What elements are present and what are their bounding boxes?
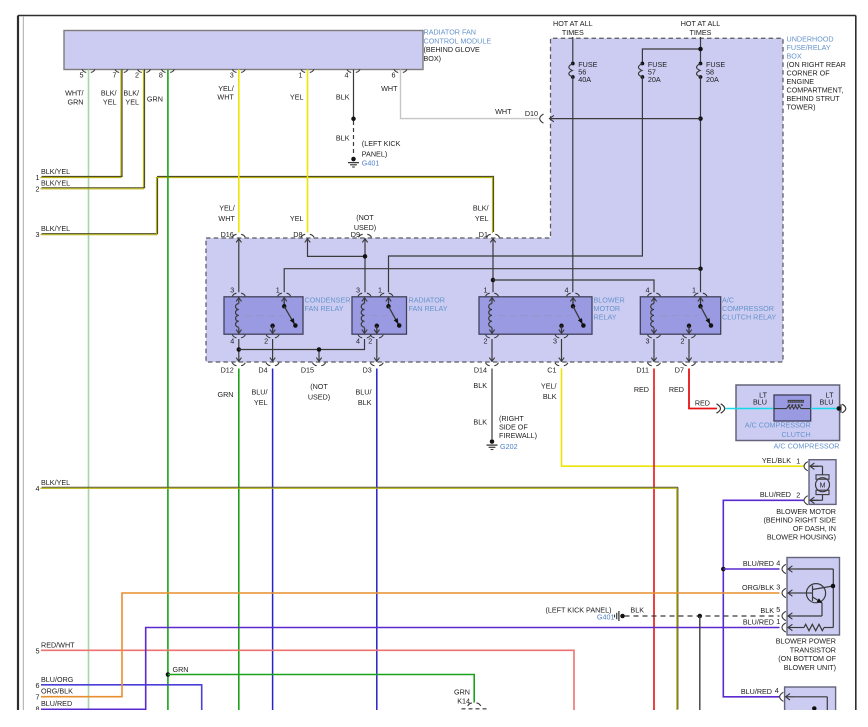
svg-text:3: 3 <box>776 582 780 591</box>
svg-text:4: 4 <box>36 484 40 493</box>
svg-text:G401: G401 <box>597 613 615 622</box>
svg-text:1: 1 <box>692 286 696 295</box>
wire D1 branch to A/C relay pin 4 <box>493 280 654 292</box>
svg-text:1: 1 <box>796 456 800 465</box>
svg-text:CONTROL MODULE: CONTROL MODULE <box>424 36 492 45</box>
frame pin 7 label <box>36 687 74 702</box>
connector D7 <box>675 355 696 375</box>
svg-text:4: 4 <box>230 337 234 346</box>
svg-text:1: 1 <box>776 617 780 626</box>
connector C1 <box>547 355 568 375</box>
svg-text:D11: D11 <box>636 365 649 374</box>
junction D8/D9 <box>363 254 368 259</box>
svg-text:WHT: WHT <box>381 84 398 93</box>
svg-text:TOWER): TOWER) <box>787 103 816 112</box>
svg-text:BLK/YEL: BLK/YEL <box>41 478 70 487</box>
underhood fuse/relay box (dashed) <box>206 38 783 362</box>
wire YEL/BLK from C1 to blower motor <box>541 369 804 467</box>
node HOT AT ALL TIMES (fuse 58) <box>681 19 721 37</box>
svg-text:(BEHIND GLOVE: (BEHIND GLOVE <box>424 45 481 54</box>
junction GRN branch <box>166 665 189 677</box>
svg-text:(LEFT KICK: (LEFT KICK <box>362 139 401 148</box>
svg-text:BLK: BLK <box>336 134 350 143</box>
svg-text:GRN: GRN <box>173 665 189 674</box>
svg-text:D8: D8 <box>293 230 302 239</box>
wire WHT/GRN from module pin 5 <box>65 70 88 711</box>
wire BLK/YEL from module pin 2 to frame pin 2 <box>40 69 145 189</box>
wire condenser pin2 to D4 <box>272 339 274 355</box>
connector D12 <box>221 355 246 375</box>
wire YEL/WHT from module pin 3 to connector D16 <box>217 70 238 233</box>
svg-text:BLU: BLU <box>820 397 834 406</box>
label NOT USED at D15 <box>308 382 330 401</box>
wire RED from D11 <box>634 369 654 711</box>
label left kick panel at G401 <box>545 605 614 621</box>
ground G401 (left kick panel) <box>348 139 401 168</box>
svg-text:RADIATOR FAN: RADIATOR FAN <box>424 28 476 37</box>
connector transistor pin 3 <box>742 582 796 597</box>
svg-text:5: 5 <box>36 646 40 655</box>
svg-text:C1: C1 <box>547 365 556 374</box>
svg-text:3: 3 <box>36 230 40 239</box>
svg-text:4: 4 <box>646 286 650 295</box>
module pin 2 <box>135 69 151 79</box>
svg-text:BLU/: BLU/ <box>252 388 268 397</box>
svg-text:YEL/: YEL/ <box>541 382 557 391</box>
connector D1 <box>479 230 500 246</box>
svg-text:1: 1 <box>484 286 488 295</box>
svg-text:RED: RED <box>669 385 684 394</box>
svg-text:YEL: YEL <box>290 93 304 102</box>
svg-text:D12: D12 <box>221 365 234 374</box>
wire D9 down <box>364 245 366 292</box>
svg-text:TRANSISTOR: TRANSISTOR <box>790 645 836 654</box>
wire D16 to condenser relay pin 3 <box>238 245 240 292</box>
blower power transistor box <box>787 558 840 636</box>
svg-text:BLOWER POWER: BLOWER POWER <box>776 637 836 646</box>
A/C compressor clutch label <box>745 421 811 439</box>
wire GRN branch to K14 <box>168 675 474 703</box>
svg-text:BLK/: BLK/ <box>123 89 139 98</box>
svg-text:M: M <box>820 482 826 489</box>
wire fuse 56 feed <box>572 37 574 64</box>
wire GRN from D12 <box>218 369 239 711</box>
svg-text:D14: D14 <box>474 365 487 374</box>
svg-text:40A: 40A <box>578 75 591 84</box>
svg-text:3: 3 <box>230 286 234 295</box>
svg-text:BLU/RED: BLU/RED <box>741 687 772 696</box>
svg-text:RED: RED <box>695 399 710 408</box>
wire blower pin3 to C1 <box>561 339 563 355</box>
relay K2 radiator fan relay <box>352 286 448 346</box>
frame pin 1 label <box>36 167 71 182</box>
svg-text:D7: D7 <box>675 365 684 374</box>
wire WHT from module pin 6 to D10 <box>381 70 538 119</box>
svg-text:GRN: GRN <box>68 98 84 107</box>
connector D9 <box>351 230 372 246</box>
frame pin 8 label <box>36 699 73 714</box>
wire D8 to junction <box>308 245 366 256</box>
svg-text:4: 4 <box>345 71 349 80</box>
svg-text:5: 5 <box>776 605 780 614</box>
relay K1 condenser fan relay <box>224 286 350 346</box>
connector bottom box pin 4 <box>741 686 794 701</box>
svg-text:(NOT: (NOT <box>310 382 328 391</box>
svg-text:GRN: GRN <box>454 687 470 696</box>
svg-text:BLK: BLK <box>543 392 557 401</box>
connector D16 <box>221 230 246 246</box>
ground G401 at blower transistor <box>615 611 625 621</box>
connector transistor pin 1 <box>743 617 797 632</box>
svg-text:D3: D3 <box>363 365 372 374</box>
svg-text:BLU/RED: BLU/RED <box>41 699 72 708</box>
label BLK/YEL at D1 <box>473 204 489 223</box>
svg-text:1: 1 <box>378 286 382 295</box>
svg-text:YEL/: YEL/ <box>218 84 234 93</box>
svg-text:GRN: GRN <box>147 95 163 104</box>
blower motor box <box>809 460 836 505</box>
wire BLU/ORG frame pin 6 <box>41 685 202 710</box>
svg-text:BLK/: BLK/ <box>473 204 489 213</box>
wire RED from D7 to A/C clutch <box>669 369 717 409</box>
wire fuse57 to radiator relay pin1 <box>389 77 643 292</box>
svg-text:BLU/RED: BLU/RED <box>760 490 791 499</box>
junction fuse58/condenser pin1 link <box>698 266 703 271</box>
splice on BLK wire <box>351 117 356 122</box>
svg-text:2: 2 <box>796 491 800 500</box>
junction fuse57/fuse58 top <box>698 47 703 52</box>
connector D4 <box>258 355 279 375</box>
svg-text:BLU/RED: BLU/RED <box>743 559 774 568</box>
blower motor M1 <box>810 466 830 500</box>
wire A/C pin3 to D11 <box>653 339 655 355</box>
module pin 8 <box>159 69 175 79</box>
frame pin 2 label <box>36 178 71 193</box>
svg-text:BLU: BLU <box>753 397 767 406</box>
inline connector on RED wire <box>717 404 725 413</box>
junction D1 branch <box>491 278 496 283</box>
connector blower motor pin 2 <box>760 490 819 505</box>
svg-text:USED): USED) <box>308 392 330 401</box>
svg-text:3: 3 <box>356 286 360 295</box>
A/C compressor box <box>736 385 840 441</box>
relay K3 blower motor relay <box>479 286 625 346</box>
svg-text:7: 7 <box>36 693 40 702</box>
svg-text:D16: D16 <box>221 230 234 239</box>
svg-text:3: 3 <box>646 337 650 346</box>
connector transistor pin 5 <box>760 605 796 620</box>
svg-text:2: 2 <box>368 337 372 346</box>
module pin 5 <box>80 69 96 79</box>
svg-text:BLK/YEL: BLK/YEL <box>41 224 70 233</box>
module pin 1 <box>299 69 315 79</box>
connector D11 <box>636 355 660 375</box>
frame pin 6 label <box>36 675 74 690</box>
svg-text:HOT AT ALL: HOT AT ALL <box>553 19 593 28</box>
wire BLU/BLK from D3 <box>356 369 377 711</box>
svg-text:A/C COMPRESSOR: A/C COMPRESSOR <box>774 442 840 451</box>
label NOT USED at D9 <box>354 213 376 232</box>
svg-text:D1: D1 <box>479 230 488 239</box>
connector blower motor pin 1 <box>762 456 819 471</box>
svg-text:FIREWALL): FIREWALL) <box>499 431 537 440</box>
wire BLK from module pin 4 <box>336 70 354 119</box>
wire BLU/RED trunk <box>723 500 803 697</box>
A/C compressor clutch coil <box>774 395 811 421</box>
svg-text:WHT: WHT <box>217 93 234 102</box>
svg-text:20A: 20A <box>706 75 719 84</box>
svg-text:A/C COMPRESSOR: A/C COMPRESSOR <box>745 421 811 430</box>
svg-text:D10: D10 <box>525 109 538 118</box>
connector D15 <box>301 355 326 375</box>
svg-text:1: 1 <box>276 286 280 295</box>
module pin 4 <box>345 69 361 79</box>
svg-text:BLU/RED: BLU/RED <box>743 617 774 626</box>
wire BLK dashed to ground <box>336 121 354 156</box>
svg-text:1: 1 <box>299 71 303 80</box>
fuse 56 (40A) <box>569 60 598 84</box>
connector K14 <box>454 687 481 706</box>
module pin 3 <box>230 69 246 79</box>
wire A/C pin2 to D7 <box>688 339 690 355</box>
transistor Q1 <box>797 569 836 631</box>
wire junction line to D15 and radiator pin4 <box>239 339 365 355</box>
wire fuse 58 feed <box>700 37 702 64</box>
wire condenser pin1 to fuse58 net <box>284 269 700 293</box>
svg-text:BLU/ORG: BLU/ORG <box>41 675 74 684</box>
svg-text:BLOWER UNIT): BLOWER UNIT) <box>784 663 836 672</box>
radiator fan control module box <box>64 31 423 70</box>
wire fuse 57 top link <box>642 49 700 64</box>
wire LT BLU into clutch <box>726 391 775 409</box>
wire ORG/BLK frame pin 7 to transistor pin 3 <box>41 593 780 697</box>
wire BLU/RED branch to transistor pin 4 <box>723 568 779 570</box>
junction fuse58/D10 <box>698 116 703 121</box>
connector D14 <box>474 355 499 375</box>
svg-text:3: 3 <box>230 71 234 80</box>
wire radiator pin2 to D3 <box>376 339 378 355</box>
svg-text:PANEL): PANEL) <box>362 149 387 158</box>
svg-text:TIMES: TIMES <box>562 28 584 37</box>
blower motor label <box>763 507 836 542</box>
svg-text:D15: D15 <box>301 365 314 374</box>
svg-text:RELAY: RELAY <box>594 313 617 322</box>
module pin 6 <box>392 69 408 79</box>
svg-text:FAN RELAY: FAN RELAY <box>409 304 448 313</box>
svg-text:3: 3 <box>553 337 557 346</box>
svg-text:RED: RED <box>634 385 649 394</box>
junction BLU/RED to transistor <box>721 567 726 572</box>
wire GRN from module pin 8 <box>147 70 168 711</box>
frame pin 3 label <box>36 224 71 239</box>
svg-text:BOX): BOX) <box>424 54 442 63</box>
frame pin 5 label <box>36 640 76 655</box>
svg-text:YEL: YEL <box>254 398 268 407</box>
wire RED/WHT frame pin 5 <box>41 650 574 710</box>
wire YEL from module pin 1 to connector D8 <box>290 70 308 233</box>
fuse 58 (20A) <box>697 60 726 84</box>
svg-text:G401: G401 <box>362 159 380 168</box>
svg-text:GRN: GRN <box>218 390 234 399</box>
svg-text:HOT AT ALL: HOT AT ALL <box>681 19 721 28</box>
wire D1 to blower relay pin 1 <box>492 245 494 292</box>
svg-text:D9: D9 <box>351 230 360 239</box>
svg-text:BLK: BLK <box>336 93 350 102</box>
svg-text:WHT/: WHT/ <box>65 89 83 98</box>
wire BLK down from junction <box>699 616 701 710</box>
dashed component at K14 <box>462 708 489 710</box>
module pin 7 <box>113 69 129 79</box>
wire D10 line inside box <box>550 118 701 120</box>
wire fuse58 to A/C relay pin1 <box>700 77 702 292</box>
wire BLK dashed to transistor pin 5 <box>625 605 780 616</box>
relay K4 A/C compressor clutch relay <box>640 286 776 346</box>
wire LT BLU out of clutch <box>811 391 838 409</box>
connector at A/C compressor case <box>837 404 846 413</box>
wire condenser pin4 to D12 <box>238 339 240 355</box>
svg-text:ORG/BLK: ORG/BLK <box>742 583 774 592</box>
junction BLK dashed <box>698 614 703 619</box>
svg-text:BLK: BLK <box>760 606 774 615</box>
svg-text:8: 8 <box>159 71 163 80</box>
svg-text:ORG/BLK: ORG/BLK <box>41 687 73 696</box>
svg-text:BLK: BLK <box>358 398 372 407</box>
svg-text:BLK: BLK <box>473 418 487 427</box>
svg-text:2: 2 <box>484 337 488 346</box>
wire BLK from D14 to ground <box>473 369 492 440</box>
connector D10 <box>525 109 554 123</box>
label YEL at D8 <box>290 214 304 223</box>
svg-text:BLOWER HOUSING): BLOWER HOUSING) <box>767 533 836 542</box>
svg-text:CLUTCH RELAY: CLUTCH RELAY <box>722 313 776 322</box>
wire fuse56 to blower relay pin4 <box>572 77 574 292</box>
node HOT AT ALL TIMES (fuse 56) <box>553 19 593 37</box>
svg-text:6: 6 <box>36 681 40 690</box>
wire BLK/YEL frame pin 4 <box>40 487 677 710</box>
svg-text:(NOT: (NOT <box>356 213 374 222</box>
ground G202 (right side of firewall) <box>487 414 538 451</box>
fuse 57 (20A) <box>638 60 667 84</box>
svg-text:WHT: WHT <box>495 107 512 116</box>
svg-text:4: 4 <box>356 337 360 346</box>
svg-text:YEL: YEL <box>475 214 489 223</box>
wire BLU/YEL from D4 <box>252 369 273 711</box>
junction pin4/D15 link <box>237 347 242 352</box>
svg-text:6: 6 <box>392 71 396 80</box>
svg-text:YEL/: YEL/ <box>219 204 235 213</box>
svg-text:CLUTCH: CLUTCH <box>782 430 811 439</box>
frame pin 4 label <box>36 478 71 493</box>
connector D8 <box>293 230 314 246</box>
svg-text:2: 2 <box>264 337 268 346</box>
svg-text:BLK: BLK <box>473 381 487 390</box>
svg-text:K14: K14 <box>457 697 470 706</box>
A/C compressor label <box>774 442 840 451</box>
svg-text:2: 2 <box>681 337 685 346</box>
wire BLK/YEL from module pin 7 to frame pin 1 <box>40 69 122 178</box>
svg-text:BLU/: BLU/ <box>356 388 372 397</box>
svg-text:RED/WHT: RED/WHT <box>41 640 75 649</box>
blower power transistor label <box>776 637 837 672</box>
svg-text:FAN RELAY: FAN RELAY <box>305 304 344 313</box>
svg-text:BLK: BLK <box>630 605 644 614</box>
wire blower pin2 to D14 <box>491 339 493 355</box>
svg-text:2: 2 <box>36 184 40 193</box>
underhood fuse/relay box label <box>787 35 846 112</box>
svg-text:TIMES: TIMES <box>690 28 712 37</box>
connector transistor pin 4 <box>743 558 797 573</box>
svg-text:D4: D4 <box>258 365 267 374</box>
svg-text:G202: G202 <box>500 442 518 451</box>
svg-text:4: 4 <box>776 558 780 567</box>
svg-text:WHT: WHT <box>218 214 235 223</box>
svg-text:YEL/BLK: YEL/BLK <box>762 456 791 465</box>
wire BLK/YEL frame pin 3 to connector D1 <box>40 176 493 236</box>
wire BLU/RED frame pin 8 to transistor pin 1 <box>41 628 780 710</box>
svg-text:7: 7 <box>113 71 117 80</box>
connector D3 <box>363 355 384 375</box>
junction D15 <box>317 347 322 352</box>
svg-text:20A: 20A <box>648 75 661 84</box>
svg-text:BLK/YEL: BLK/YEL <box>41 178 70 187</box>
bottom component box <box>785 687 836 713</box>
svg-text:BLK/YEL: BLK/YEL <box>41 167 70 176</box>
bottom box internal wire <box>794 697 827 711</box>
svg-text:BLK/: BLK/ <box>101 89 117 98</box>
svg-text:2: 2 <box>135 71 139 80</box>
label YEL/WHT at D16 <box>218 204 235 223</box>
svg-text:(ON BOTTOM OF: (ON BOTTOM OF <box>778 654 836 663</box>
svg-text:YEL: YEL <box>103 98 117 107</box>
svg-text:5: 5 <box>80 71 84 80</box>
radiator fan control module label <box>424 28 492 63</box>
svg-text:1: 1 <box>36 173 40 182</box>
svg-text:4: 4 <box>565 286 569 295</box>
svg-text:YEL: YEL <box>290 214 304 223</box>
svg-text:4: 4 <box>775 686 779 695</box>
svg-text:YEL: YEL <box>125 98 139 107</box>
